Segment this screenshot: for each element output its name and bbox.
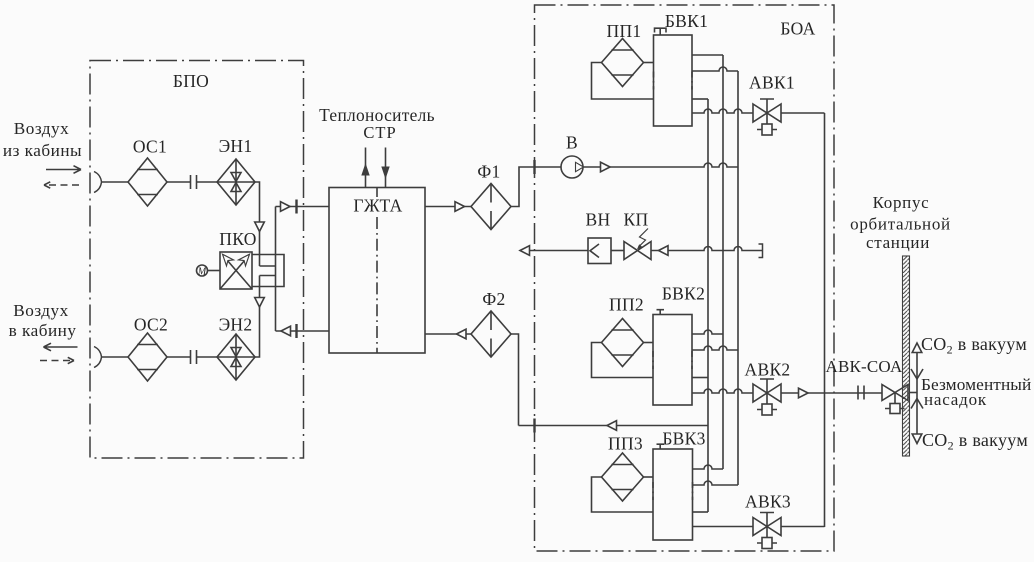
feedthrough tick on БОА border (return line) [533,419,535,433]
absorber ПП1 [602,39,644,87]
label БПО [173,71,209,91]
label Ф1 [477,162,500,182]
flange on СОА line [858,386,864,400]
wire fan to bus3 [583,163,738,167]
svg-text:в кабину: в кабину [9,321,77,340]
absorber ПП2 [602,319,644,367]
wire ГЖТА to Ф2 [425,333,471,335]
svg-text:АВК1: АВК1 [749,73,795,93]
heater ЭН2 [217,334,255,380]
label ГЖТА [353,196,402,216]
flange joint row2 [191,350,197,364]
svg-text:ПП3: ПП3 [608,434,643,454]
label БВК1 [665,11,708,31]
label Безмоментный насадок [921,375,1031,409]
svg-text:ГЖТА: ГЖТА [353,196,402,216]
label Теплоноситель [319,105,435,125]
wire ПП1 to БВК1 [644,62,654,64]
БВК2 mid dash-dot marks [653,351,692,369]
svg-text:ЭН2: ЭН2 [219,315,253,335]
svg-text:Воздух: Воздух [14,119,69,138]
label ПП3 [608,434,643,454]
label БВК2 [662,284,705,304]
flow arrow on return line [607,421,617,431]
wire БВК3 to АВК3 [693,526,754,528]
wire АВК2 to hull [781,392,882,394]
svg-text:КП: КП [624,210,649,230]
svg-text:СО2 в вакуум: СО2 в вакуум [922,430,1028,453]
wire Ф1 to fan B [511,167,561,207]
valve АВК-СОА [882,385,908,414]
ПКО cross arrows [220,254,252,289]
flow arrow relief out [520,246,530,256]
label ПП1 [607,21,642,41]
filter Ф1 [471,184,511,230]
flow arrow from ГЖТА [281,326,291,336]
wire ВН to КП [611,250,624,252]
station hull wall (hatched) [903,256,910,456]
svg-text:СТР: СТР [363,123,396,142]
label CO2 top [921,334,1027,357]
nozzle upper outlet mark [911,369,923,379]
label БОА [780,19,815,39]
arrow air from cabin (dashed, left) [44,181,79,189]
label АВК3 [745,492,791,512]
wire ПКО to ГЖТА top [276,206,330,208]
flow arrow on КП line [659,246,669,256]
coolant line up [361,148,369,188]
flow arrow down to ЭН2 [255,298,265,308]
БВК3 top fitting [657,444,665,449]
label Ф2 [482,289,505,309]
svg-text:насадок: насадок [924,390,987,409]
svg-text:АВК3: АВК3 [745,492,791,512]
flow arrow after fan [601,162,611,172]
wire БВК1 to АВК1 [692,109,753,113]
svg-text:АВК-СОА: АВК-СОА [825,357,903,376]
svg-text:ВН: ВН [586,210,611,230]
svg-text:БПО: БПО [173,71,209,91]
vessel БВК3 [653,449,693,540]
wire ПП3 loop [592,477,654,512]
wire КП to capped end [651,247,762,251]
svg-text:ОС2: ОС2 [134,315,168,335]
regenerator rungs [260,266,276,276]
svg-text:БВК1: БВК1 [665,11,708,31]
wire cabin relief out [520,250,588,252]
wire ГЖТА to Ф1 [425,206,471,208]
bus line 3 [737,71,739,485]
label ОС1 [133,137,167,157]
wire ОС2 to flange [167,356,191,358]
rotary unit ПКО box [220,252,252,289]
svg-text:БВК3: БВК3 [662,429,705,449]
heat exchanger ГЖТА box [329,188,425,354]
feedthrough tick on БОА border (fan line) [533,160,535,174]
fan В [561,156,584,178]
wire flange to ЭН2 [197,356,218,358]
filter Ф2 [471,311,511,357]
БВК2 top fitting [657,310,665,315]
label ВН [586,210,611,230]
wire БВК1 portA to bus2 [692,54,723,56]
nozzle vertical pipe [916,352,918,434]
device ВН box [588,238,611,264]
wire ПП2 loop [592,343,654,378]
label В [566,133,578,153]
label АВК-СОА [825,357,903,376]
arrow air to cabin (dashed, right) [40,357,74,365]
wire БВК3 port3 to bus1 [693,511,709,513]
flow arrow to Ф1 [455,202,465,212]
flow arrow down into ПКО [255,222,265,232]
arrow CO2 down [912,434,922,444]
arrow air to cabin (solid, left) [44,343,78,351]
svg-text:ЭН1: ЭН1 [219,136,253,156]
wire БВК3 port2 to bus3 [693,481,739,485]
flow arrow to ГЖТА [281,202,291,212]
wire АВК1 to right header [781,112,825,114]
coolant line down [381,148,389,188]
valve АВК3 [753,513,781,549]
wire АВК3 to right header [781,526,825,528]
БВК1 top fitting [655,28,667,35]
label ЭН2 [219,315,253,335]
wire ПП3 to БВК3 [644,476,654,478]
return wire to Ф2 [519,425,709,427]
БВК3 mid dash-dot marks [653,482,693,500]
capped pipe end [759,244,763,258]
regenerator housing of ПКО [252,255,284,287]
svg-text:Ф2: Ф2 [482,289,505,309]
bus line 2 [722,55,724,469]
wire БВК1 portB to bus3 [692,67,738,71]
label ОС2 [134,315,168,335]
svg-text:из кабины: из кабины [3,141,82,160]
wire coupling to ОС1 [102,181,129,183]
svg-text:орбитальной: орбитальной [850,215,951,234]
enclosure БПО (dash-dot border) [90,61,304,459]
label Воздух в кабину [9,301,77,340]
feedthrough tick bottom [295,324,297,338]
arrow air from cabin (solid, right) [46,166,81,174]
bus line 1 [707,99,709,512]
flow arrow into ГЖТА from Ф2 [457,329,467,339]
label ПКО [219,229,256,249]
flow arrow to hull [799,388,809,398]
svg-text:Корпус: Корпус [873,193,930,212]
svg-text:В: В [566,133,578,153]
wire ПП2 to БВК2 [644,342,654,344]
label ЭН1 [219,136,253,156]
motor M of ПКО [197,265,221,278]
label СТР [363,123,396,142]
coolant branch vertical [275,207,277,332]
arrow CO2 up [912,343,922,353]
coupling at БПО inlet [94,172,102,193]
wire БВК2 port3 to bus1 [692,377,708,379]
svg-text:Ф1: Ф1 [477,162,500,182]
svg-text:Воздух: Воздух [13,301,68,320]
label CO2 bottom [922,430,1028,453]
coupling at БПО outlet [94,347,102,368]
flange joint row1 [191,175,197,189]
КП spring squiggle [637,229,648,250]
separator ОС1 [128,158,167,206]
vessel БВК1 [654,35,693,126]
wire БВК2 to АВК2 [692,389,753,393]
wire flange to ЭН1 [197,181,218,183]
wire БВК2 port1 to bus2 [692,330,723,334]
svg-text:БОА: БОА [780,19,815,39]
svg-text:станции: станции [866,233,930,252]
valve АВК1 [753,99,781,135]
safety valve КП [624,242,651,260]
wire БВК1 portC to bus1 [692,98,708,100]
БВК1 mid dash-dot marks [654,72,693,90]
wire coupling to ОС2 [102,356,129,358]
wire БВК2 port2 to bus3 [692,346,738,350]
wire ГЖТА bottom return [276,330,330,332]
label ПП2 [609,295,644,315]
heater ЭН1 [217,159,255,205]
svg-text:АВК2: АВК2 [745,360,791,380]
right header vertical [824,113,826,527]
label АВК2 [745,360,791,380]
svg-text:ОС1: ОС1 [133,137,167,157]
wire Ф2 elbow to return bus [511,334,519,426]
svg-text:ПП2: ПП2 [609,295,644,315]
nozzle lower outlet mark [911,399,923,409]
absorber ПП3 [602,453,644,501]
separator ОС2 [128,333,167,381]
svg-text:ПКО: ПКО [219,229,256,249]
valve АВК2 [753,379,781,415]
ГЖТА internal divider (dash-dot) [376,188,378,354]
wire БВК3 port1 to bus2 [693,465,724,469]
enclosure БОА (dash-dot border) [535,5,835,551]
label Корпус орбитальной станции [850,193,951,252]
svg-text:Теплоноситель: Теплоноситель [319,105,435,125]
vessel БВК2 [653,315,692,406]
wire ЭН1 to ПКО down [255,182,260,266]
label БВК3 [662,429,705,449]
svg-text:БВК2: БВК2 [662,284,705,304]
svg-text:ПП1: ПП1 [607,21,642,41]
wire through hull to nozzle [910,392,918,394]
label КП [624,210,649,230]
svg-text:М: М [197,267,207,278]
label АВК1 [749,73,795,93]
wire ПП1 loop [592,63,654,100]
svg-text:СО2 в вакуум: СО2 в вакуум [921,334,1027,357]
feedthrough tick top [295,200,297,214]
label Воздух из кабины [3,119,82,160]
wire ОС1 to flange [167,181,191,183]
wire ПКО to ЭН2 [255,276,260,358]
